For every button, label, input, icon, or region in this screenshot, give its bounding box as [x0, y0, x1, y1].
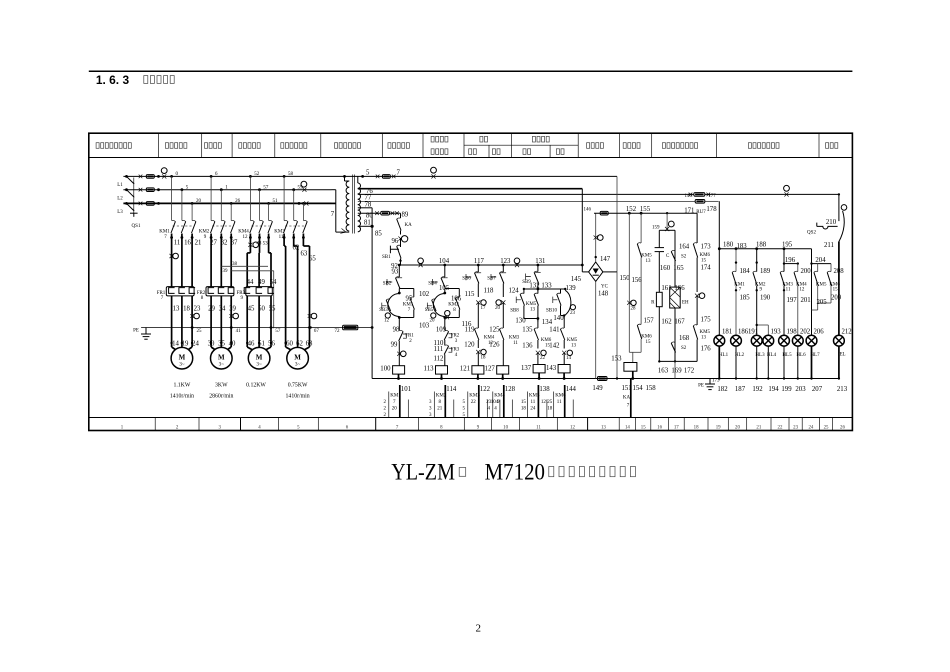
col3 wire — [477, 265, 479, 272]
rail to rectifier corner — [582, 271, 588, 273]
svg-text:174: 174 — [701, 265, 712, 272]
contactor KM2 main contacts — [211, 222, 215, 234]
demag jog wires 38 39 — [221, 265, 268, 267]
aux contact KM2 parallel box — [445, 288, 460, 290]
svg-text:12: 12 — [541, 400, 547, 405]
svg-text:127: 127 — [485, 366, 496, 373]
bus L3 line — [123, 202, 331, 204]
svg-text:13: 13 — [530, 308, 536, 313]
svg-text:211: 211 — [824, 242, 834, 249]
svg-text:25: 25 — [547, 400, 553, 405]
svg-text:3: 3 — [429, 400, 432, 405]
svg-text:KM6: KM6 — [641, 335, 652, 340]
svg-text:10: 10 — [503, 425, 508, 430]
svg-text:49: 49 — [258, 279, 265, 286]
wire 155 vertical — [640, 213, 642, 243]
wire 89 down — [400, 213, 402, 218]
svg-text:200: 200 — [801, 268, 812, 275]
svg-text:13: 13 — [701, 336, 707, 341]
svg-text:144: 144 — [566, 386, 577, 393]
terminal circle SB5 — [431, 313, 436, 318]
svg-text:FR2: FR2 — [451, 334, 460, 339]
svg-text:EH: EH — [682, 301, 689, 306]
pushbutton SB3 parallel arc — [388, 294, 400, 317]
relay contact KA — [397, 219, 401, 231]
svg-text:51: 51 — [273, 199, 279, 204]
svg-text:147: 147 — [600, 256, 611, 263]
svg-text:146: 146 — [685, 194, 693, 199]
terminal circle line L1 — [161, 168, 167, 174]
aux contact KM5 col6 — [560, 329, 564, 340]
wire 85 vertical — [371, 226, 373, 378]
svg-text:7: 7 — [331, 211, 335, 218]
col5 wire top — [537, 265, 539, 272]
svg-text:3~: 3~ — [256, 362, 262, 368]
svg-text:193: 193 — [771, 329, 782, 336]
aux contact KM4 — [475, 329, 479, 340]
coil KM5 — [533, 365, 545, 373]
coil KM2 — [436, 366, 448, 374]
svg-text:2: 2 — [176, 425, 179, 430]
coil KM1 — [393, 366, 405, 374]
svg-text:114: 114 — [446, 386, 457, 393]
coil KM1 stub — [398, 374, 400, 378]
header split mid-lines — [464, 144, 578, 146]
svg-text:206: 206 — [814, 329, 825, 336]
svg-text:28: 28 — [631, 307, 637, 312]
svg-text:209: 209 — [831, 295, 842, 302]
thermal contact FR3 nc — [444, 340, 446, 346]
svg-text:7: 7 — [393, 400, 396, 405]
svg-text:125: 125 — [489, 327, 500, 334]
header bottom line — [89, 157, 853, 159]
pushbutton SB1 — [390, 246, 399, 254]
svg-text:11: 11 — [557, 400, 562, 405]
svg-text:21: 21 — [437, 406, 443, 411]
aux contact KM6 col5 — [534, 329, 538, 340]
svg-text:21: 21 — [195, 240, 202, 247]
sub rail 132 133 — [524, 288, 565, 290]
lamp HL6 branch — [797, 264, 799, 272]
wires drops to KM1 — [170, 175, 173, 178]
svg-text:122: 122 — [480, 386, 491, 393]
table KM1 — [399, 385, 401, 418]
sub merge 130 — [524, 318, 538, 320]
svg-text:52: 52 — [254, 172, 260, 177]
wires drops to KM4 — [249, 175, 252, 178]
svg-text:128: 128 — [505, 386, 516, 393]
svg-text:23: 23 — [793, 425, 798, 430]
svg-text:RU7: RU7 — [696, 210, 706, 215]
lamp HL6 — [792, 335, 803, 346]
svg-text:150: 150 — [620, 275, 631, 282]
col6 wire low — [563, 353, 565, 365]
pushbutton SB4 — [433, 279, 438, 285]
svg-text:14: 14 — [172, 341, 179, 348]
svg-text:153: 153 — [611, 356, 622, 363]
fuse FU on line1 — [382, 175, 390, 179]
svg-text:23: 23 — [570, 311, 576, 316]
svg-text:7: 7 — [397, 170, 401, 177]
svg-text:18: 18 — [694, 425, 699, 430]
lamp top rail — [719, 248, 811, 250]
svg-text:152: 152 — [626, 206, 637, 213]
svg-text:63: 63 — [301, 251, 308, 258]
svg-text:12: 12 — [570, 425, 575, 430]
title tofu xing — [459, 468, 466, 477]
svg-text:3~: 3~ — [219, 362, 225, 368]
relay coil KA 153 — [624, 363, 637, 372]
terminal circle col4 — [496, 300, 501, 305]
svg-text:KM2: KM2 — [448, 303, 459, 308]
svg-text:15: 15 — [646, 340, 652, 345]
svg-text:18: 18 — [521, 406, 527, 411]
svg-text:22: 22 — [471, 400, 477, 405]
table KM3 — [478, 385, 480, 418]
PE earth bus — [141, 327, 372, 329]
svg-text:197: 197 — [787, 297, 798, 304]
svg-text:115: 115 — [465, 291, 476, 298]
svg-text:L3: L3 — [117, 210, 123, 215]
svg-text:164: 164 — [679, 244, 690, 251]
header cells 11-15 tofu — [587, 143, 590, 149]
wires drops to KM2 — [210, 175, 213, 178]
header cell 8 two-row tofu — [431, 136, 434, 142]
svg-text:72: 72 — [335, 329, 341, 334]
svg-text:1.1KW: 1.1KW — [173, 382, 190, 388]
sub rail 196 — [784, 263, 798, 265]
svg-text:56: 56 — [268, 341, 275, 348]
terminal circle KM2 box — [445, 311, 450, 316]
svg-text:162: 162 — [661, 319, 672, 326]
svg-text:30: 30 — [208, 341, 215, 348]
aux contact KM5 173 — [696, 296, 698, 325]
svg-text:185: 185 — [740, 295, 751, 302]
svg-text:130: 130 — [515, 318, 526, 325]
col5 wire low — [537, 353, 539, 365]
svg-text:11: 11 — [530, 400, 535, 405]
svg-text:78: 78 — [365, 201, 372, 208]
terminal circle col3 low — [481, 349, 486, 354]
svg-text:113: 113 — [424, 366, 435, 373]
col6 wire top — [563, 316, 565, 329]
svg-text:M: M — [256, 354, 263, 362]
svg-text:65: 65 — [309, 256, 316, 263]
svg-text:0.12KW: 0.12KW — [246, 382, 266, 388]
svg-text:60: 60 — [286, 341, 293, 348]
col2 wire — [444, 265, 446, 277]
svg-text:173: 173 — [712, 379, 720, 384]
svg-text:212: 212 — [842, 329, 853, 336]
terminal circle SB3 — [385, 313, 390, 318]
aux contact KM5 mid — [537, 289, 539, 294]
pushbutton SB8 — [523, 289, 525, 294]
lamp HL3 HL4 T-split — [757, 324, 769, 326]
wire to SB1 — [400, 239, 402, 247]
svg-text:8: 8 — [453, 308, 456, 313]
svg-text:190: 190 — [760, 295, 771, 302]
svg-text:11: 11 — [536, 425, 541, 430]
svg-text:19: 19 — [182, 341, 189, 348]
switch QS2 — [816, 223, 818, 227]
svg-text:103: 103 — [419, 322, 430, 329]
svg-text:YL-ZM: YL-ZM — [391, 460, 455, 485]
table KM6 — [564, 385, 566, 418]
svg-text:17: 17 — [674, 425, 679, 430]
svg-text:22: 22 — [778, 425, 783, 430]
lamp HL7 sub branches — [817, 264, 819, 272]
svg-text:25: 25 — [197, 329, 203, 334]
svg-text:131: 131 — [535, 258, 545, 265]
svg-text:63: 63 — [306, 341, 313, 348]
svg-text:23: 23 — [194, 306, 201, 313]
jog wires 44 49 54 — [246, 253, 248, 287]
svg-text:3: 3 — [219, 425, 222, 430]
svg-text:210: 210 — [826, 219, 837, 226]
lamp HL1 branch — [718, 247, 721, 250]
svg-text:KM3: KM3 — [469, 393, 480, 398]
svg-text:16: 16 — [657, 425, 662, 430]
svg-text:145: 145 — [571, 276, 582, 283]
lamp HL3 branch — [755, 247, 758, 250]
contactor KM1 main contacts — [171, 222, 175, 234]
svg-text:35: 35 — [218, 341, 225, 348]
svg-text:149: 149 — [592, 385, 603, 392]
wire EL down — [838, 241, 840, 335]
svg-text:YC: YC — [601, 285, 609, 290]
svg-text:9: 9 — [204, 235, 207, 240]
svg-text:133: 133 — [541, 282, 552, 289]
svg-text:109: 109 — [436, 327, 447, 334]
svg-text:188: 188 — [756, 241, 767, 248]
svg-text:5: 5 — [463, 400, 466, 405]
svg-text:KM4: KM4 — [494, 393, 505, 398]
svg-text:169: 169 — [671, 368, 682, 375]
svg-text:205: 205 — [817, 299, 828, 306]
aux contact KM3 — [500, 329, 504, 340]
svg-text:157: 157 — [644, 318, 655, 325]
svg-text:6: 6 — [346, 425, 349, 430]
svg-text:158: 158 — [646, 385, 657, 392]
svg-text:57: 57 — [263, 185, 269, 190]
svg-text:192: 192 — [752, 386, 763, 393]
DC bus line — [594, 212, 697, 214]
svg-text:4: 4 — [258, 425, 261, 430]
coil KM3 stub — [477, 374, 479, 378]
wire 178 down — [718, 201, 720, 335]
svg-text:59: 59 — [298, 185, 304, 190]
title tofu chars — [549, 467, 554, 477]
svg-text:184: 184 — [740, 268, 751, 275]
svg-text:KM5: KM5 — [526, 302, 537, 307]
svg-text:QS2: QS2 — [807, 231, 816, 236]
terminal circle col3 up — [481, 300, 486, 305]
strip cell dividers — [154, 418, 156, 431]
svg-text:SB10: SB10 — [546, 309, 558, 314]
svg-text:39: 39 — [223, 269, 229, 274]
heading rule — [89, 70, 853, 72]
heading tofu boxes — [144, 76, 148, 84]
pushbutton SB9 — [526, 274, 531, 280]
svg-text:124: 124 — [509, 288, 520, 295]
thermal contact FR2 nc — [444, 332, 448, 341]
terminal circle 77 line — [784, 185, 790, 191]
rectifier bottom wire 149 — [595, 281, 597, 378]
svg-text:44: 44 — [247, 279, 254, 286]
svg-text:KM6: KM6 — [700, 253, 711, 258]
svg-text:80: 80 — [366, 213, 373, 220]
svg-text:143: 143 — [546, 365, 557, 372]
rectifier YC diamond — [589, 262, 603, 281]
svg-text:13: 13 — [646, 259, 652, 264]
svg-text:154: 154 — [633, 385, 644, 392]
switch S2 upper — [671, 252, 675, 262]
svg-text:213: 213 — [837, 386, 848, 393]
terminal x line L3 — [304, 201, 308, 205]
svg-text:55: 55 — [269, 306, 276, 313]
transformer core — [352, 175, 354, 234]
svg-text:119: 119 — [465, 327, 476, 334]
tap 81 bottom wire — [358, 225, 372, 227]
coil KM5 stub — [538, 373, 540, 379]
terminal circle QS2 — [841, 205, 847, 211]
svg-text:189: 189 — [760, 268, 771, 275]
svg-text:181: 181 — [722, 329, 732, 336]
svg-text:191: 191 — [748, 329, 758, 336]
svg-text:5: 5 — [366, 170, 370, 177]
svg-text:KM4: KM4 — [484, 336, 495, 341]
table KA — [630, 379, 632, 418]
svg-text:KM3: KM3 — [782, 282, 793, 287]
svg-text:M: M — [179, 354, 186, 362]
control top rail — [399, 264, 582, 266]
svg-text:SB2: SB2 — [383, 282, 392, 287]
col2 wire low — [444, 355, 446, 366]
svg-text:23: 23 — [486, 400, 492, 405]
svg-text:25: 25 — [824, 425, 829, 430]
svg-text:M7120: M7120 — [485, 460, 545, 485]
svg-text:26: 26 — [840, 425, 845, 430]
svg-text:SB8: SB8 — [510, 309, 519, 314]
secondary top tap to L1 — [357, 176, 359, 183]
svg-text:199: 199 — [781, 386, 792, 393]
motor M3 — [248, 347, 270, 369]
svg-text:102: 102 — [419, 291, 430, 298]
motor M4 — [287, 347, 309, 369]
svg-text:146: 146 — [584, 208, 592, 213]
terminal circles motor leads — [194, 313, 200, 319]
coil KM2 stub — [441, 374, 443, 378]
header row tofu cells 1-7 — [96, 143, 99, 149]
sub bottom drop — [674, 361, 676, 378]
svg-text:KM4: KM4 — [796, 282, 807, 287]
svg-text:R: R — [651, 301, 655, 306]
wires KM1 KM2 to FR — [171, 238, 173, 287]
svg-text:201: 201 — [801, 297, 811, 304]
contactor KM4 main contacts — [250, 222, 254, 234]
svg-text:KM2: KM2 — [199, 230, 210, 235]
sub rail 204 — [812, 263, 832, 265]
svg-text:KM5: KM5 — [641, 254, 652, 259]
svg-text:12: 12 — [384, 319, 390, 324]
svg-text:178: 178 — [706, 206, 717, 213]
svg-text:194: 194 — [768, 386, 779, 393]
terminal circle col5 — [541, 350, 546, 355]
svg-text:KM3: KM3 — [274, 230, 285, 235]
svg-text:24: 24 — [530, 406, 536, 411]
svg-text:99: 99 — [391, 342, 398, 349]
svg-text:7: 7 — [739, 288, 742, 293]
aux contact KM6 173 — [693, 244, 697, 258]
col2 wire mid — [444, 318, 446, 331]
svg-text:9: 9 — [477, 425, 480, 430]
svg-text:111: 111 — [434, 346, 444, 353]
lamp HL5 — [779, 335, 790, 346]
svg-text:KM5: KM5 — [567, 338, 578, 343]
svg-text:136: 136 — [522, 343, 533, 350]
svg-text:14: 14 — [625, 425, 630, 430]
svg-text:2: 2 — [476, 623, 482, 635]
terminal circle line1 right — [431, 167, 437, 173]
svg-text:3: 3 — [429, 406, 432, 411]
svg-text:204: 204 — [815, 257, 826, 264]
svg-text:118: 118 — [484, 288, 495, 295]
switch QS1 linkage — [133, 178, 135, 214]
svg-text:15: 15 — [521, 400, 527, 405]
svg-text:7: 7 — [164, 235, 167, 240]
svg-text:57: 57 — [275, 329, 281, 334]
PE ground symbol — [145, 328, 147, 335]
svg-text:SB6: SB6 — [462, 277, 471, 282]
svg-text:176: 176 — [701, 346, 712, 353]
svg-text:20: 20 — [430, 319, 436, 324]
col3 wire low — [477, 352, 479, 366]
header cell 9 split tofu — [480, 136, 483, 142]
svg-text:11: 11 — [279, 235, 284, 240]
relay KA merge — [629, 351, 641, 353]
svg-text:KM1: KM1 — [734, 282, 745, 287]
svg-text:167: 167 — [674, 319, 685, 326]
svg-text:0.75KW: 0.75KW — [288, 382, 308, 388]
arc bypass right — [565, 290, 571, 315]
terminal circle col1 — [401, 351, 407, 357]
tap 80 wire — [358, 212, 381, 214]
svg-text:QS1: QS1 — [132, 224, 141, 229]
svg-text:18: 18 — [183, 306, 190, 313]
fuse on bottom rail — [598, 377, 608, 381]
svg-text:12: 12 — [799, 288, 805, 293]
lamp HL4 — [763, 335, 774, 346]
coil KM4 — [497, 366, 509, 374]
terminal circle motor col1 — [173, 253, 179, 259]
svg-text:159: 159 — [652, 226, 660, 231]
pushbutton SB2 — [387, 279, 392, 285]
thermal contact FR1 nc — [399, 332, 403, 342]
svg-text:3KW: 3KW — [215, 382, 228, 388]
svg-text:89: 89 — [402, 212, 409, 219]
svg-text:202: 202 — [800, 329, 811, 336]
svg-text:1410r/min: 1410r/min — [170, 394, 194, 400]
svg-text:148: 148 — [598, 291, 609, 298]
svg-text:168: 168 — [679, 335, 690, 342]
svg-text:40: 40 — [229, 341, 236, 348]
svg-text:155: 155 — [640, 206, 651, 213]
header cell 10 split tofu — [532, 136, 535, 142]
svg-text:8: 8 — [201, 296, 204, 301]
wires drops to KM3 — [283, 175, 286, 178]
svg-text:141: 141 — [549, 327, 559, 334]
svg-text:20: 20 — [196, 199, 202, 204]
